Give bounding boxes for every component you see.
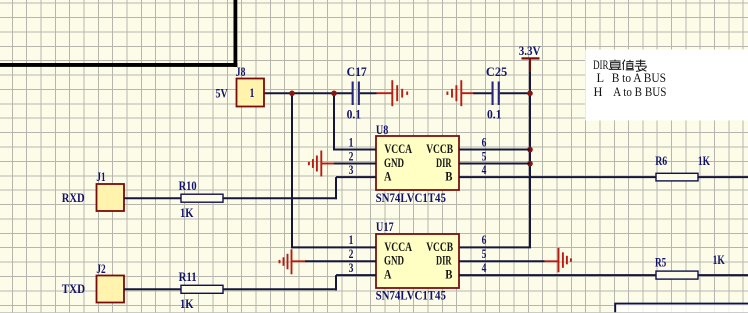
capacitor C25 <box>486 65 507 121</box>
svg-text:RXD: RXD <box>62 191 85 205</box>
svg-text:4: 4 <box>482 261 487 275</box>
ground symbol at U17 pin 2 <box>280 249 306 274</box>
junction at 291,93 <box>289 91 295 97</box>
connector J8 <box>236 65 264 107</box>
power port 3.3V <box>519 44 541 72</box>
svg-text:0.1: 0.1 <box>487 107 502 121</box>
svg-text:R10: R10 <box>179 179 197 193</box>
svg-text:SN74LVC1T45: SN74LVC1T45 <box>376 289 446 303</box>
U8 pin 1 VCCA <box>334 149 376 151</box>
svg-text:A: A <box>384 170 391 184</box>
svg-text:6: 6 <box>482 233 487 247</box>
svg-text:R11: R11 <box>179 270 197 284</box>
svg-text:H: H <box>594 85 603 99</box>
wire U17 pin6 to rail <box>459 246 531 248</box>
svg-text:5V: 5V <box>216 86 228 100</box>
resistor R11 <box>179 270 223 311</box>
svg-text:J1: J1 <box>96 170 105 184</box>
svg-text:U8: U8 <box>376 123 388 137</box>
svg-text:6: 6 <box>482 135 487 149</box>
wire R6 to edge <box>698 176 748 178</box>
wire vertical from junction to U8 pin1 <box>333 93 335 150</box>
wire C25 to 3.3V rail <box>500 92 530 94</box>
IC U8 <box>376 123 459 205</box>
svg-text:R5: R5 <box>655 255 666 269</box>
svg-text:1: 1 <box>349 233 354 247</box>
connector J2 <box>96 262 124 303</box>
CJK 真值表 glyph strokes <box>609 60 647 72</box>
svg-text:0.1: 0.1 <box>347 107 362 121</box>
U17 pin 3 A <box>336 274 376 276</box>
svg-text:A to B BUS: A to B BUS <box>613 85 666 99</box>
U8 pin 6 VCCB <box>459 149 530 151</box>
U8 pin 2 GND <box>333 163 376 165</box>
svg-text:DIR: DIR <box>593 58 609 72</box>
wire R11 to U17 A <box>223 288 337 290</box>
svg-text:1: 1 <box>349 135 354 149</box>
wire ground to C25 <box>473 92 492 94</box>
svg-text:SN74LVC1T45: SN74LVC1T45 <box>376 191 446 205</box>
junction at 530,149.5 <box>527 147 533 153</box>
svg-text:1: 1 <box>250 86 255 100</box>
U17 pin 5 DIR <box>459 260 545 262</box>
svg-text:L: L <box>597 71 605 85</box>
svg-text:J2: J2 <box>96 262 105 276</box>
svg-text:1K: 1K <box>180 297 194 311</box>
svg-text:GND: GND <box>384 254 404 268</box>
svg-text:C25: C25 <box>486 65 507 79</box>
svg-text:DIR: DIR <box>436 254 452 268</box>
svg-text:U17: U17 <box>376 220 394 234</box>
junction at 530,93 <box>527 91 533 97</box>
svg-text:VCCB: VCCB <box>426 142 453 156</box>
note DIR truth table <box>585 50 748 121</box>
svg-text:5: 5 <box>482 149 487 163</box>
svg-text:J8: J8 <box>236 65 246 79</box>
svg-text:2: 2 <box>349 149 354 163</box>
svg-text:B to A BUS: B to A BUS <box>612 71 666 85</box>
wire J1 to R10 <box>124 197 181 199</box>
svg-text:VCCB: VCCB <box>426 240 453 254</box>
resistor R10 <box>179 179 223 220</box>
svg-text:B: B <box>445 170 452 184</box>
capacitor C17 <box>347 65 367 121</box>
svg-text:DIR: DIR <box>436 156 452 170</box>
svg-text:GND: GND <box>384 156 404 170</box>
U8 pin 3 A <box>336 176 376 178</box>
wire R10 to U8 A <box>223 197 337 199</box>
sheet symbol corner bottom-right <box>615 304 748 313</box>
svg-text:VCCA: VCCA <box>384 142 412 156</box>
wire C17 to ground <box>360 92 377 94</box>
wire J2 to R11 <box>124 288 181 290</box>
svg-text:R6: R6 <box>655 154 667 168</box>
U8 pin 5 DIR <box>459 163 530 165</box>
svg-text:4: 4 <box>482 163 487 177</box>
wire vertical from junction to U17 pin1 <box>291 93 293 248</box>
wire 3.3V vertical rail <box>529 71 531 247</box>
U8 pin 4 B <box>459 176 656 178</box>
wire 5V rail J8 to C17 <box>264 92 352 94</box>
resistor R5 <box>655 253 725 279</box>
connector J1 <box>96 170 124 211</box>
svg-text:A: A <box>384 268 391 282</box>
IC U17 <box>376 220 459 303</box>
svg-text:3: 3 <box>349 163 354 177</box>
ground symbol at U8 pin 2 <box>309 151 334 177</box>
bottom edge gridline <box>0 311 748 313</box>
ground symbol left of C25 <box>447 80 473 106</box>
sheet symbol corner top-left <box>0 0 237 67</box>
svg-text:VCCA: VCCA <box>384 240 412 254</box>
ground symbol at U17 pin 5 <box>545 248 571 272</box>
svg-text:1K: 1K <box>180 206 194 220</box>
svg-text:C17: C17 <box>347 65 367 79</box>
U17 pin 1 VCCA <box>292 246 376 248</box>
ground symbol right of C17 <box>377 80 408 106</box>
svg-text:B: B <box>445 268 452 282</box>
svg-text:TXD: TXD <box>62 282 85 296</box>
wire RXD jog up to U8 pin 3 <box>335 177 337 199</box>
junction at 530,163.5 <box>527 161 533 167</box>
svg-text:5: 5 <box>482 247 487 261</box>
svg-text:2: 2 <box>349 247 354 261</box>
U17 pin 2 GND <box>305 260 376 262</box>
svg-text:1K: 1K <box>713 253 725 267</box>
wire TXD jog up to U17 pin 3 <box>335 275 337 290</box>
wire R5 to edge <box>698 274 748 276</box>
resistor R6 <box>655 154 710 181</box>
svg-text:3: 3 <box>349 261 354 275</box>
svg-text:1K: 1K <box>698 154 710 168</box>
svg-text:3.3V: 3.3V <box>519 44 541 58</box>
U17 pin 4 B <box>459 274 656 276</box>
junction at 334,93 <box>331 91 337 97</box>
